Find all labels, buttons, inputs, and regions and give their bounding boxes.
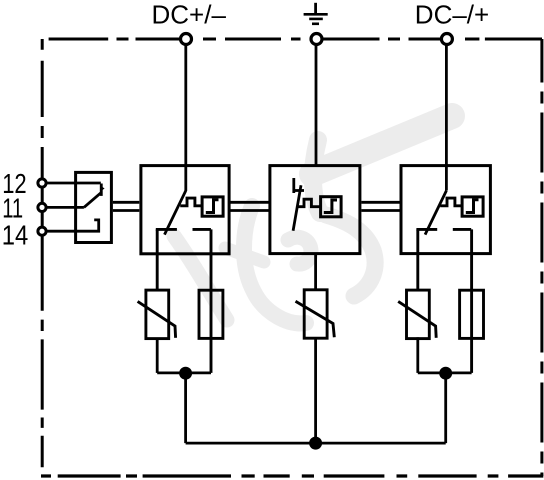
- wire DC+/- terminal to SPD1: [184, 46, 187, 192]
- wire DC-/+ terminal to SPD3: [445, 46, 448, 166]
- SPD module U1 box: [141, 166, 229, 254]
- SPD U2 trigger box: [321, 197, 342, 217]
- enclosure border top (dash-dot): [49, 38, 542, 41]
- SPD U3 output contact seat: [416, 228, 471, 231]
- SPD U1 step glyph: [206, 200, 219, 213]
- wire terminal 14: [46, 220, 99, 231]
- svg-text:DC–/+: DC–/+: [415, 0, 489, 30]
- terminal 11 circle: [38, 203, 46, 211]
- terminal DC+/-: [181, 34, 192, 45]
- fuse F1: [199, 290, 223, 338]
- fuse F3: [460, 290, 484, 338]
- SPD U3 trigger box: [462, 197, 483, 216]
- wire branch3 stem: [444, 373, 447, 443]
- wire terminal 12: [46, 182, 101, 185]
- mechanical coupling K1-U1: [113, 202, 139, 210]
- enclosure border bottom (dash-dot): [41, 474, 543, 477]
- varistor RV2: [304, 290, 327, 338]
- wire U2 to varistor RV2: [314, 253, 317, 288]
- enclosure border right (dash-dot): [540, 39, 543, 476]
- wire ground terminal to SPD2: [315, 46, 318, 166]
- wire branch1 bottom U: [157, 371, 211, 374]
- wire branch3 bottom U: [418, 371, 472, 374]
- terminal 12 circle: [38, 179, 46, 187]
- mechanical coupling U2-U3: [361, 202, 399, 210]
- SPD U1 output contact seat: [156, 228, 211, 231]
- wire varistor RV1 bottom: [156, 339, 159, 373]
- SPD U2 blade: [293, 185, 301, 231]
- SPD U2 trigger pulse line: [297, 199, 319, 207]
- wire U1 left leg to varistor: [156, 229, 159, 290]
- varistor RV1: [146, 290, 169, 339]
- SPD U3 trigger pulse line: [440, 198, 462, 206]
- SPD U2 electrode: [292, 178, 295, 193]
- wire U3 vertical inside: [445, 165, 448, 190]
- mechanical coupling U1-U2: [230, 202, 268, 210]
- enclosure border left (dash-dot): [41, 39, 44, 467]
- wire U1 right leg to fuse: [210, 229, 213, 373]
- node bus center: [310, 437, 322, 449]
- node branch1: [180, 367, 192, 379]
- SPD U1 trigger pulse line: [180, 198, 202, 206]
- terminal 14 circle: [38, 227, 46, 235]
- wire U3 right leg: [470, 229, 473, 373]
- wire RV2 to bus: [314, 338, 317, 443]
- SPD U2 tick: [294, 189, 304, 192]
- SPD module U3 box: [401, 166, 490, 254]
- contact K1 blade with arrow: [84, 193, 101, 208]
- SPD U3 step glyph: [466, 200, 479, 213]
- wire bottom bus: [186, 442, 446, 445]
- remote contact box K1: [76, 172, 112, 242]
- watermark DEHN logo: [174, 116, 452, 323]
- wire U3 left leg: [416, 229, 419, 290]
- varistor RV3: [407, 290, 430, 339]
- SPD U1 disconnector blade: [165, 191, 186, 235]
- SPD U1 trigger box: [202, 197, 223, 216]
- SPD U2 step glyph: [324, 200, 337, 213]
- ground symbol: [314, 3, 317, 15]
- SPD U3 disconnector blade: [425, 191, 446, 235]
- terminal DC-/+: [441, 34, 452, 45]
- wire branch1 stem to bus: [184, 373, 187, 443]
- SPD module U2 box: [270, 166, 360, 254]
- svg-text:DC+/–: DC+/–: [152, 0, 227, 30]
- wire RV3 bottom: [416, 337, 419, 373]
- svg-text:14: 14: [2, 219, 29, 250]
- wire terminal 11: [46, 206, 84, 209]
- terminal ground: [311, 34, 322, 45]
- node branch3: [440, 367, 452, 379]
